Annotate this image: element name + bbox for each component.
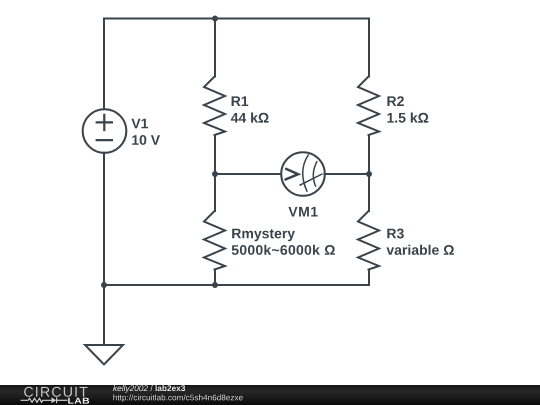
footer url text [113,394,242,402]
wire top bus [104,18,369,20]
CircuitLab logo wordmark CIRCUIT [24,387,88,397]
node junction right [366,171,372,177]
label R1 value [231,96,269,122]
label VM1 [288,207,317,217]
ground [85,345,123,365]
wire right R2 to R3 [368,135,370,211]
CircuitLab logo wordmark LAB [68,398,89,404]
label R3 value [387,229,454,255]
node junction middle [212,171,218,177]
resistor R3 [358,211,379,270]
wire bottom bus [104,284,369,286]
node junction top middle [212,16,218,22]
label Rmystery value [232,229,335,255]
wire middle R1 to node [214,135,216,211]
wire right bottom [368,270,370,286]
label R2 value [387,96,428,123]
CircuitLab logo schematic squiggle [21,397,68,403]
node junction bottom middle [212,282,218,288]
voltmeter VM1 [281,152,325,196]
footer bar [0,385,540,405]
label V1 value [131,119,160,145]
node junction bottom left [101,282,107,288]
wire voltmeter left [215,173,282,175]
resistor R1 [204,77,225,136]
resistor R2 [358,77,379,136]
resistor Rmystery [204,211,225,270]
wire left top vertical [103,19,105,110]
wire voltmeter right [325,173,370,175]
wire right top vertical [368,19,370,77]
wire V1 bottom vertical [103,153,105,345]
wire middle bottom [214,270,216,286]
footer title text [113,385,185,393]
wire middle top vertical [214,19,216,77]
voltage source V1 [83,109,127,153]
